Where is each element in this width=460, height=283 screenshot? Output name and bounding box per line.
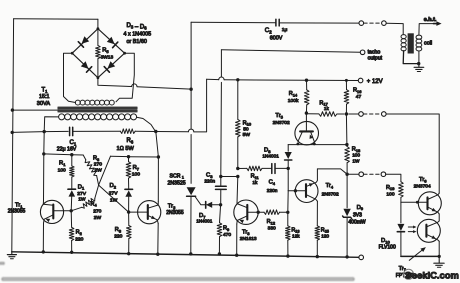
svg-text:2W: 2W (94, 215, 102, 221)
svg-text:S: S (405, 269, 411, 280)
resistor R6 (120, 129, 135, 134)
svg-text:R10: R10 (243, 120, 252, 126)
node R14 top junction (305, 79, 308, 82)
node R10 top junction (236, 78, 239, 81)
svg-text:R6: R6 (127, 138, 134, 144)
transformer T1 HV winding (75, 100, 80, 105)
wire Tr7 emitter to bottom (438, 241, 440, 256)
transformer T1 primary winding (59, 114, 65, 120)
capacitor C1 (69, 127, 71, 135)
wire R1 to D1 (71, 177, 73, 188)
wire bridge apex stub (97, 19, 99, 29)
resistor R3 (diagonal) (83, 155, 86, 160)
resistor R4 (diagonal) (71, 207, 82, 211)
ground symbol bottom-left (11, 252, 13, 255)
wire Tr3 emitter to rail (236, 224, 238, 255)
wire bridge arm top-left (72, 29, 98, 54)
wire Tr5 collector-emitter line (288, 144, 347, 146)
svg-text:1μ: 1μ (282, 27, 288, 33)
resistor R10 (236, 119, 241, 136)
svg-text:1k: 1k (324, 106, 330, 111)
wire e.h.t. arrow (434, 23, 437, 25)
ground symbol Tr7 (438, 256, 440, 263)
svg-text:100: 100 (58, 167, 66, 173)
wire D8 top lead (287, 145, 289, 152)
wire +12V bus left (207, 78, 219, 80)
node R13-rail junction (286, 254, 289, 257)
wire Tr6-Tr7 link (438, 214, 440, 221)
svg-text:or B1/60: or B1/60 (127, 39, 147, 45)
wire R7 to D2 (128, 178, 130, 188)
node rail-primary-left junction (43, 130, 46, 133)
svg-text:Tr3: Tr3 (242, 230, 250, 236)
terminal link3 a (359, 172, 364, 177)
svg-text:R4: R4 (90, 201, 97, 207)
svg-text:1Ω 5W: 1Ω 5W (117, 146, 135, 152)
node optocoupler bottom-right (438, 255, 441, 258)
svg-text:30VA: 30VA (37, 101, 51, 107)
wire to coil primary (386, 23, 403, 34)
node left-core junction (11, 108, 14, 111)
node R18 top junction (345, 143, 348, 146)
capacitor C3 (216, 185, 227, 187)
node R9-rail junction (218, 252, 221, 255)
terminal link2 b (382, 112, 387, 117)
wire dashed link low (364, 173, 381, 175)
node R16 cross junction (345, 112, 348, 115)
node Tr5 base junction (305, 111, 308, 114)
wire SCR cathode (190, 196, 192, 254)
svg-text:3V3: 3V3 (353, 213, 362, 219)
wire base node down to R12 (287, 191, 289, 213)
transistor Tr2 internals (147, 205, 149, 219)
svg-text:47: 47 (356, 94, 362, 100)
wire bridge arm bottom-left (72, 53, 98, 77)
wire bridge-right bracket (116, 53, 134, 102)
svg-text:D9: D9 (357, 205, 364, 211)
svg-text:R14: R14 (289, 91, 298, 97)
resistor R13 (286, 226, 291, 240)
wire primary right lead (137, 117, 156, 131)
wire R16-R18 segment (345, 114, 348, 145)
wire hop over bracket (132, 84, 137, 87)
coil core (408, 33, 414, 53)
wire coil secondary bottom (418, 51, 420, 63)
wire rail to +12V corner (194, 79, 207, 132)
svg-text:220n: 220n (267, 188, 278, 194)
svg-text:C2: C2 (265, 27, 272, 34)
node R16 top junction (345, 79, 348, 82)
diode D6 (bridge lower-right) (107, 61, 115, 69)
svg-text:Tr4: Tr4 (326, 183, 334, 189)
wire R16 to cross junction (345, 104, 347, 114)
node left-rail junction (11, 131, 14, 134)
wire bottom ground rail (12, 252, 359, 257)
wire D7 to C3 column (212, 204, 220, 206)
wire Tr2 collector column (156, 132, 159, 202)
wire R14 to junction (305, 105, 307, 113)
wire R12 node to R13 (287, 212, 289, 226)
diode D4 (bridge upper-right) (107, 37, 115, 45)
zener D9 (343, 209, 350, 216)
node R1 top junction (70, 153, 73, 156)
resistor R14 (306, 80, 308, 90)
svg-text:2N3055: 2N3055 (8, 208, 26, 214)
node R7 top junction (127, 155, 130, 158)
wire hop over SCR column (188, 129, 193, 132)
svg-text:120: 120 (321, 234, 329, 239)
svg-text:C1: C1 (70, 140, 77, 146)
svg-text:D10: D10 (381, 238, 390, 244)
wire R16 top lead (345, 80, 347, 89)
svg-text:R11: R11 (251, 174, 259, 180)
wire R9 to rail (218, 237, 220, 254)
resistor R11 (238, 167, 247, 169)
wire C2 line right (279, 22, 359, 24)
resistor R17 (306, 113, 319, 115)
svg-text:R1: R1 (59, 161, 66, 167)
node bridge right (123, 52, 126, 55)
wire link3 to R19 (386, 174, 401, 182)
node Tr4 base junction (294, 189, 297, 192)
diode D5 (bridge lower-left) (81, 61, 89, 69)
wire D8 to R11 junction (287, 161, 289, 169)
svg-text:1W: 1W (78, 197, 86, 203)
wire D1 to base node (70, 197, 73, 211)
wire R10 top lead (237, 80, 239, 120)
svg-text:2N1613: 2N1613 (240, 236, 257, 242)
wire Tr1 emitter to rail (42, 223, 44, 252)
node mv rail right end (157, 155, 160, 158)
wire rail mid segment (73, 130, 121, 132)
svg-text:R16: R16 (353, 88, 361, 94)
svg-text:+ 12V: + 12V (367, 79, 383, 85)
svg-text:R5: R5 (102, 48, 109, 54)
svg-text:R8: R8 (115, 227, 121, 233)
coil primary winding (401, 35, 406, 39)
node D8 column junction (287, 167, 290, 170)
transistor Tr4 internals (305, 184, 307, 197)
diode D8 (285, 152, 292, 159)
wire +12V bus right (224, 79, 358, 82)
wire tacho line (221, 50, 360, 52)
node coil bottom junction (417, 62, 420, 65)
svg-text:R9: R9 (223, 226, 229, 232)
svg-text:R12: R12 (267, 219, 275, 225)
svg-text:22μ 16V: 22μ 16V (57, 147, 77, 153)
svg-text:FLV100: FLV100 (379, 244, 396, 250)
svg-text:4 x 1N4005: 4 x 1N4005 (124, 32, 152, 38)
wire tacho column upper (220, 50, 222, 77)
wire to Tr3 collector (236, 177, 239, 204)
terminal C2 out b (382, 21, 387, 26)
svg-text:C4: C4 (269, 180, 276, 186)
wire HT bus to SCR column (137, 87, 191, 89)
svg-text:D1: D1 (78, 184, 85, 190)
wire rail right segment (135, 130, 188, 133)
capacitor C2 (275, 19, 277, 26)
svg-text:100k: 100k (288, 98, 299, 104)
wire mv rail right (111, 155, 159, 158)
node Tr3 base junction (257, 211, 260, 214)
svg-text:1N4001: 1N4001 (262, 154, 279, 159)
wire connector line 2 (349, 113, 359, 115)
svg-text:100: 100 (386, 191, 394, 197)
wire D9 top lead (346, 174, 348, 208)
svg-text:1N4001: 1N4001 (196, 219, 213, 224)
wire D10 top lead (400, 202, 402, 223)
svg-text:Tr5: Tr5 (275, 113, 283, 119)
wire C4 to D8 column (275, 167, 288, 169)
transistor Tr6 circle (418, 192, 441, 215)
node Tr5 line right (313, 143, 316, 146)
resistor R8 (128, 212, 130, 225)
wire Tr2 emitter to rail (157, 223, 159, 254)
transistor Tr2 circle (138, 201, 161, 224)
svg-text:1k: 1k (252, 180, 258, 186)
wire D8 column to Tr4 base (287, 168, 289, 190)
node R8-rail junction (127, 252, 130, 255)
resistor R9 (217, 223, 222, 237)
transistor Tr7 internals (425, 225, 427, 237)
svg-text:400mW: 400mW (348, 220, 366, 226)
svg-text:SCR 1: SCR 1 (170, 174, 184, 180)
diode D7 (205, 202, 207, 209)
wire C2 line left (191, 21, 276, 24)
wire mv rail left (44, 154, 83, 155)
diode D3 (bridge upper-left) (82, 36, 90, 44)
node R11 left junction (236, 167, 239, 170)
svg-text:220n: 220n (204, 179, 215, 185)
svg-text:D3 – D6: D3 – D6 (127, 23, 148, 31)
wire C3 link (221, 176, 238, 178)
coil secondary winding (416, 35, 422, 39)
resistor R12 (258, 211, 264, 213)
wire C3 column lower (220, 205, 221, 223)
wire R11 to C4 (262, 167, 272, 169)
node Tr5 line left (297, 143, 300, 146)
svg-text:R7: R7 (133, 165, 140, 171)
node SCR cathode-rail junction (189, 252, 192, 255)
terminal +12V (358, 78, 363, 83)
wire coil secondary top to e.h.t. (419, 24, 434, 35)
wire dashed link top (364, 22, 382, 24)
svg-text:3W13: 3W13 (101, 55, 114, 61)
wire SCR gate (195, 197, 205, 205)
node rail-primary-right junction (154, 130, 157, 133)
svg-text:R2: R2 (76, 230, 82, 236)
node R2-rail junction (70, 251, 73, 254)
node Tr2 emitter-rail junction (156, 253, 159, 256)
svg-text:330: 330 (268, 225, 276, 231)
node Tr6 base-edge (416, 201, 419, 204)
transistor Tr3 internals (246, 205, 248, 220)
wire primary left lead (44, 117, 58, 132)
node Tr1 emitter-rail junction (42, 250, 45, 253)
svg-text:output: output (368, 55, 383, 61)
watermark SeekIC.com (404, 269, 414, 279)
wire core tap (12, 109, 58, 111)
svg-text:e.h.t.: e.h.t. (424, 17, 437, 23)
transistor Tr1 internals (52, 205, 54, 219)
wire left frame vertical (ground bus) (12, 19, 14, 252)
wire Tr1 collector column (43, 132, 46, 201)
transistor Tr7 circle (417, 219, 440, 242)
node bridge left (71, 52, 74, 55)
wire top-left frame (14, 18, 98, 20)
svg-text:R19: R19 (386, 185, 394, 191)
led D10 (397, 224, 404, 231)
node D9-rail junction (345, 255, 348, 258)
svg-text:eekIC.com: eekIC.com (412, 269, 459, 280)
node R15-rail junction (316, 255, 319, 258)
node Tr2 base junction (127, 210, 130, 213)
svg-text:2N3704: 2N3704 (414, 184, 431, 190)
node Tr1 base junction (70, 209, 73, 212)
svg-text:1W: 1W (352, 158, 360, 163)
transistor Tr4 circle (295, 180, 318, 203)
svg-text:470: 470 (223, 232, 231, 238)
zener D1 (68, 188, 76, 190)
node D7 junction (219, 203, 222, 206)
wire R18 to node (346, 163, 348, 174)
resistor R16 (344, 90, 349, 105)
led D10 emission arrows (408, 226, 415, 228)
svg-text:50: 50 (243, 126, 249, 132)
terminal link2 a (359, 112, 364, 117)
node C3 link right junction (236, 175, 239, 178)
svg-text:2W: 2W (94, 168, 102, 174)
capacitor C4 (271, 164, 273, 174)
terminal C2 out a (359, 21, 364, 26)
node HT bus junction (189, 88, 192, 91)
resistor R18 (346, 145, 348, 147)
svg-text:D2: D2 (110, 183, 117, 189)
svg-text:27V: 27V (77, 191, 86, 197)
svg-text:5W: 5W (243, 132, 251, 138)
svg-text:2N3525: 2N3525 (168, 181, 186, 187)
terminal link3 b (381, 172, 386, 177)
wire Tr4 emitter to R18 node (317, 169, 347, 174)
wire SCR anode column (190, 22, 192, 89)
wire tacho column mid (220, 82, 223, 176)
ground symbol coil (418, 64, 420, 67)
terminal tacho (360, 50, 365, 55)
resistor R1 (71, 155, 73, 166)
wire dashed link mid (364, 113, 382, 115)
wire link2 to Tr6 collector (386, 114, 439, 193)
svg-text:coil: coil (424, 41, 432, 47)
label Tr7 pointer (409, 249, 424, 261)
resistor R15 (316, 201, 318, 226)
wire bridge arm bottom-right (98, 53, 125, 77)
svg-text:C3: C3 (206, 173, 213, 179)
svg-text:270: 270 (94, 162, 102, 168)
wire bridge-bottom to HT bus (98, 78, 132, 87)
wire connector line 3 (347, 173, 359, 175)
svg-text:R3: R3 (93, 156, 99, 162)
node R12 junction (286, 211, 289, 214)
svg-text:2N3702: 2N3702 (273, 120, 290, 126)
wire D9 bottom lead (346, 217, 348, 257)
transistor Tr5 internals (305, 113, 307, 130)
node Tr3 emitter-rail junction (235, 254, 238, 257)
svg-text:600V: 600V (270, 36, 283, 42)
scan smudge bottom (0, 263, 354, 281)
svg-text:2N3055: 2N3055 (166, 210, 184, 216)
terminal bottom common (359, 255, 364, 260)
wire bridge arm top-right (98, 29, 125, 54)
zener D2 (125, 188, 133, 190)
wire D10 bottom lead (400, 233, 402, 257)
svg-text:2N3702: 2N3702 (322, 191, 339, 197)
wire bridge-left bracket (64, 53, 76, 102)
resistor R7 (128, 157, 130, 162)
resistor R2 (70, 211, 72, 228)
node bridge bottom (97, 76, 100, 79)
svg-text:T1: T1 (42, 88, 49, 94)
transistor Tr5 circle (295, 121, 319, 145)
wire optocoupler bottom line (401, 255, 439, 257)
svg-text:220: 220 (114, 234, 122, 240)
wire R19 to Tr6 base corner (400, 197, 402, 202)
resistor R5 (97, 29, 99, 46)
wire hop over tacho column (219, 77, 224, 80)
resistor R19 (399, 182, 404, 198)
transistor Tr1 circle (40, 200, 63, 223)
node bridge apex (97, 27, 100, 30)
thyristor SCR1 (187, 187, 196, 195)
svg-text:Tr6: Tr6 (419, 177, 427, 183)
svg-text:100: 100 (352, 153, 360, 158)
node D9 junction (345, 173, 348, 176)
svg-text:220: 220 (75, 236, 83, 242)
transistor Tr3 circle (234, 200, 258, 224)
transformer T1 core (58, 106, 137, 108)
node C3 link junction (219, 175, 222, 178)
wire D2 to base node (128, 197, 130, 212)
transistor Tr6 internals (426, 197, 428, 209)
wire R10 to R11 junction (237, 137, 239, 169)
node mv rail left end (42, 152, 45, 155)
wire Tr6 base line (401, 201, 426, 203)
wire rail left segment (12, 131, 68, 132)
svg-text:100: 100 (132, 172, 140, 178)
wire coil primary bottom (403, 51, 418, 64)
svg-text:12k: 12k (292, 234, 300, 239)
svg-text:270: 270 (93, 208, 101, 214)
svg-text:15:1: 15:1 (39, 94, 50, 100)
